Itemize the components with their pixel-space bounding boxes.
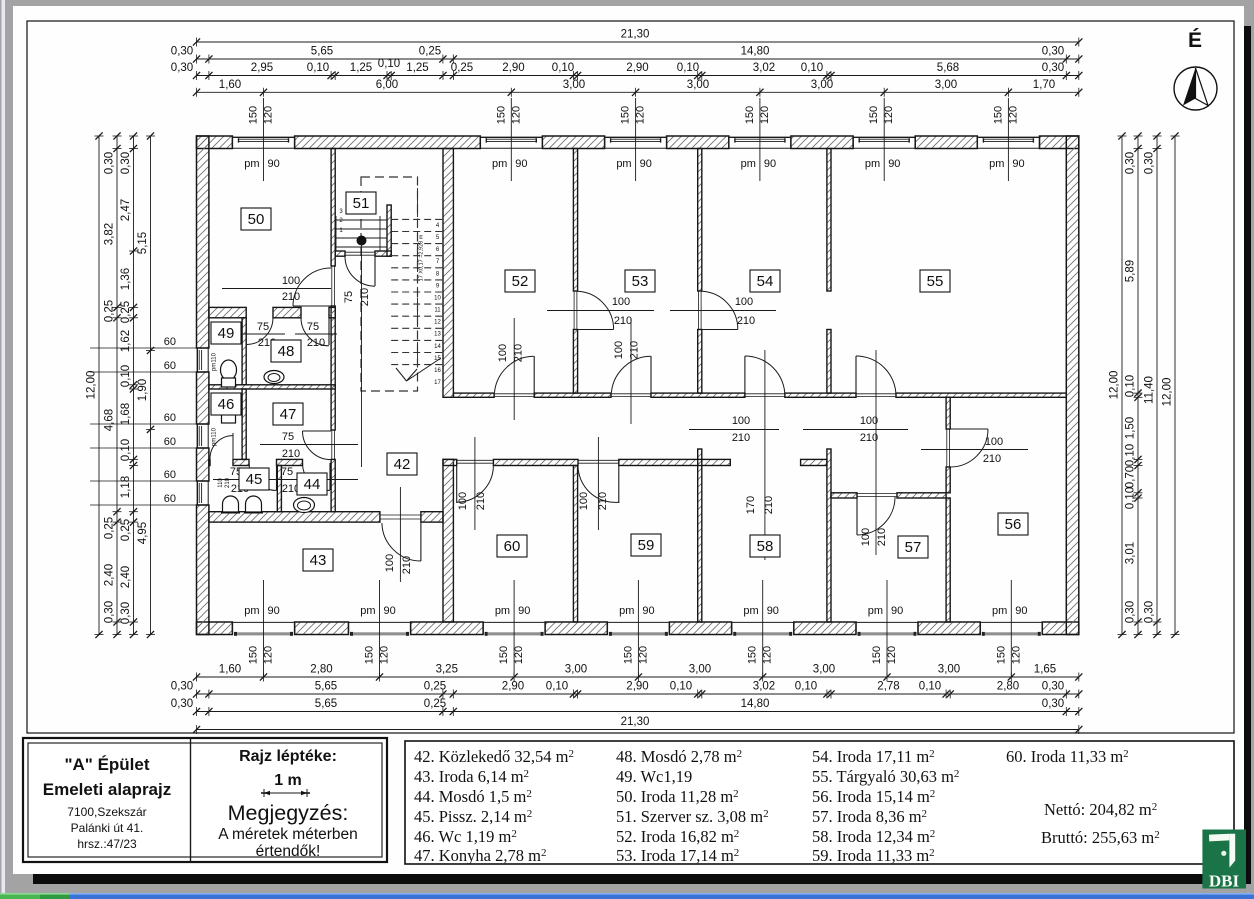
svg-text:pm: pm xyxy=(992,605,1007,617)
svg-text:100: 100 xyxy=(282,275,300,287)
svg-text:pm: pm xyxy=(989,158,1004,170)
svg-text:210: 210 xyxy=(475,492,487,510)
svg-text:48. Mosdó 2,78 m2: 48. Mosdó 2,78 m2 xyxy=(616,747,742,766)
svg-text:0,30: 0,30 xyxy=(171,681,193,693)
basin room 44 xyxy=(294,498,315,513)
svg-text:100: 100 xyxy=(735,296,753,308)
room label 44 xyxy=(297,473,327,495)
right dimension chain 11,40 xyxy=(1156,136,1158,635)
svg-text:120: 120 xyxy=(513,646,525,664)
svg-text:210: 210 xyxy=(763,496,775,514)
left dimension chain 4 xyxy=(150,136,152,635)
wall 57|56 xyxy=(946,498,950,622)
room label 51 xyxy=(346,192,376,214)
svg-text:54. Iroda 17,11 m2: 54. Iroda 17,11 m2 xyxy=(812,747,935,766)
svg-text:3,00: 3,00 xyxy=(687,79,709,91)
svg-text:47: 47 xyxy=(280,406,297,423)
svg-text:1,25: 1,25 xyxy=(350,62,372,74)
svg-text:16: 16 xyxy=(434,368,441,374)
page drop shadow right xyxy=(1244,26,1251,884)
exterior wall top xyxy=(197,136,233,149)
svg-text:90: 90 xyxy=(384,605,396,617)
svg-text:210: 210 xyxy=(737,315,755,327)
svg-text:2,78: 2,78 xyxy=(877,681,899,693)
stair flight top left xyxy=(335,219,387,221)
svg-text:pm110: pm110 xyxy=(212,352,218,371)
svg-text:14,80: 14,80 xyxy=(741,46,770,58)
svg-text:5,15: 5,15 xyxy=(137,232,149,254)
svg-text:0,30: 0,30 xyxy=(1125,601,1137,623)
svg-text:Rajz léptéke:: Rajz léptéke: xyxy=(239,748,337,765)
svg-text:0,10: 0,10 xyxy=(120,365,132,387)
top dimension row 2 xyxy=(197,58,1079,60)
svg-text:60: 60 xyxy=(164,493,176,505)
svg-text:0,10: 0,10 xyxy=(1125,487,1137,509)
svg-text:90: 90 xyxy=(268,605,280,617)
scrollbar green thumb xyxy=(0,893,70,899)
svg-text:0,10: 0,10 xyxy=(670,681,692,693)
title block outer box xyxy=(23,738,387,862)
svg-text:1,62: 1,62 xyxy=(120,330,132,352)
wc room 49 xyxy=(221,360,237,380)
svg-text:7100,Szekszár: 7100,Szekszár xyxy=(67,805,146,819)
svg-text:150: 150 xyxy=(620,106,632,124)
svg-text:75: 75 xyxy=(282,431,294,443)
svg-text:59. Iroda 11,33 m2: 59. Iroda 11,33 m2 xyxy=(812,846,935,865)
room label 43 xyxy=(303,549,333,571)
svg-text:60: 60 xyxy=(164,412,176,424)
svg-text:1,90: 1,90 xyxy=(137,379,149,401)
svg-text:0,30: 0,30 xyxy=(171,698,193,710)
svg-text:90: 90 xyxy=(268,158,280,170)
svg-text:120: 120 xyxy=(1007,106,1019,124)
door D54 upper between 53 and 54 xyxy=(697,291,699,330)
svg-text:45: 45 xyxy=(246,471,263,488)
room 57 top wall xyxy=(831,493,857,498)
svg-text:150: 150 xyxy=(868,106,880,124)
svg-text:2,80: 2,80 xyxy=(310,664,332,676)
svg-text:120: 120 xyxy=(510,106,522,124)
horizontal scrollbar xyxy=(0,893,1254,899)
windows top centre lines and pm 90 labels xyxy=(263,98,265,181)
svg-text:0,30: 0,30 xyxy=(120,602,132,624)
left dimension chain 2 xyxy=(116,136,118,635)
wall corridor|56 xyxy=(946,397,950,429)
wall 60|59 xyxy=(573,466,577,623)
svg-text:0,10: 0,10 xyxy=(552,62,574,74)
svg-text:120: 120 xyxy=(883,106,895,124)
svg-text:59: 59 xyxy=(638,537,655,554)
room label 54 xyxy=(750,270,780,292)
svg-text:17: 17 xyxy=(434,380,441,386)
svg-text:210: 210 xyxy=(225,477,231,488)
svg-text:0,10: 0,10 xyxy=(677,62,699,74)
stair newel dot xyxy=(357,236,367,246)
svg-text:Emeleti alaprajz: Emeleti alaprajz xyxy=(43,780,172,799)
compass needle xyxy=(1183,68,1196,106)
svg-text:120: 120 xyxy=(886,646,898,664)
svg-text:56. Iroda 15,14 m2: 56. Iroda 15,14 m2 xyxy=(812,787,935,806)
corridor top wall below rooms 52-55 xyxy=(453,393,494,397)
wall 52|53 xyxy=(573,149,577,292)
bottom dimension row 21,30 xyxy=(197,729,1079,731)
windows bottom centre lines and pm 90 labels xyxy=(263,580,265,677)
svg-text:1 m: 1 m xyxy=(274,772,302,789)
svg-text:0,30: 0,30 xyxy=(1042,698,1064,710)
svg-text:210: 210 xyxy=(860,432,878,444)
svg-text:210: 210 xyxy=(732,432,750,444)
corridor bottom wall xyxy=(443,459,457,465)
svg-text:100: 100 xyxy=(384,554,396,572)
door D44 room 44 xyxy=(329,463,331,490)
svg-text:51. Szerver sz. 3,08 m2: 51. Szerver sz. 3,08 m2 xyxy=(616,807,769,826)
room label 42 xyxy=(387,453,417,475)
svg-text:150: 150 xyxy=(992,106,1004,124)
svg-text:120: 120 xyxy=(759,106,771,124)
svg-text:Palánki út 41.: Palánki út 41. xyxy=(71,821,144,835)
svg-text:pm: pm xyxy=(743,605,758,617)
svg-text:75: 75 xyxy=(307,321,319,333)
svg-text:58. Iroda 12,34 m2: 58. Iroda 12,34 m2 xyxy=(812,827,935,846)
svg-text:2,47: 2,47 xyxy=(120,199,132,221)
svg-text:A méretek méterben: A méretek méterben xyxy=(218,826,358,843)
svg-text:210: 210 xyxy=(307,337,325,349)
svg-text:0,25: 0,25 xyxy=(424,681,446,693)
svg-text:60: 60 xyxy=(504,538,521,555)
svg-text:90: 90 xyxy=(891,605,903,617)
svg-text:pm: pm xyxy=(360,605,375,617)
room label 49 xyxy=(211,322,241,344)
svg-text:12,00: 12,00 xyxy=(1109,371,1121,400)
svg-text:52: 52 xyxy=(512,273,529,290)
svg-text:0,30: 0,30 xyxy=(1125,152,1137,174)
door D56 room 56 xyxy=(946,429,948,467)
svg-text:2,90: 2,90 xyxy=(502,681,524,693)
room label 45 xyxy=(239,468,269,490)
svg-text:210: 210 xyxy=(282,448,300,460)
windows left glazing and 60 dims xyxy=(196,348,198,372)
door D50 room 50 xyxy=(293,305,331,307)
svg-text:0,25: 0,25 xyxy=(451,62,473,74)
door D52 room 52 xyxy=(494,393,534,395)
svg-text:60. Iroda 11,33 m2: 60. Iroda 11,33 m2 xyxy=(1006,747,1129,766)
stair centre line xyxy=(361,241,363,468)
svg-text:0,25: 0,25 xyxy=(120,519,132,541)
svg-text:5,65: 5,65 xyxy=(315,698,337,710)
door D57 room 57 xyxy=(857,493,897,495)
door D53 upper between 52 and 53 xyxy=(573,291,575,330)
svg-text:0,10: 0,10 xyxy=(1125,375,1137,397)
top dimension row 3 xyxy=(197,75,1079,77)
svg-text:57: 57 xyxy=(905,539,922,556)
svg-text:100: 100 xyxy=(497,344,509,362)
svg-text:0,10: 0,10 xyxy=(307,62,329,74)
svg-text:0,10: 0,10 xyxy=(795,681,817,693)
svg-text:53: 53 xyxy=(632,273,649,290)
svg-text:2,40: 2,40 xyxy=(104,564,116,586)
svg-text:0,25: 0,25 xyxy=(419,46,441,58)
svg-text:90: 90 xyxy=(767,605,779,617)
svg-text:0,25: 0,25 xyxy=(104,517,116,539)
svg-text:3,00: 3,00 xyxy=(938,664,960,676)
windows bottom glazing xyxy=(232,621,294,623)
door D60 room 60 xyxy=(457,459,494,461)
svg-text:120: 120 xyxy=(637,646,649,664)
svg-text:pm: pm xyxy=(868,605,883,617)
svg-text:11: 11 xyxy=(434,308,441,314)
svg-text:60: 60 xyxy=(164,336,176,348)
svg-text:0,25: 0,25 xyxy=(104,300,116,322)
svg-text:51: 51 xyxy=(353,195,370,212)
svg-text:3,02: 3,02 xyxy=(753,62,775,74)
svg-text:É: É xyxy=(1188,29,1202,52)
svg-text:210: 210 xyxy=(282,291,300,303)
svg-text:90: 90 xyxy=(642,605,654,617)
svg-text:0,10: 0,10 xyxy=(919,681,941,693)
svg-text:45. Pissz. 2,14 m2: 45. Pissz. 2,14 m2 xyxy=(414,807,532,826)
svg-text:120: 120 xyxy=(263,646,275,664)
basin room 48 xyxy=(264,371,284,384)
svg-text:90: 90 xyxy=(640,158,652,170)
wall 59|58 xyxy=(698,449,702,622)
svg-text:100: 100 xyxy=(613,341,625,359)
svg-text:2,90: 2,90 xyxy=(502,62,524,74)
svg-text:0,10: 0,10 xyxy=(1125,444,1137,466)
svg-text:3,01: 3,01 xyxy=(1125,542,1137,564)
svg-text:21,30: 21,30 xyxy=(621,716,650,728)
left window edge strip xyxy=(2,0,6,893)
room label 60 xyxy=(497,535,527,557)
svg-text:54: 54 xyxy=(757,273,774,290)
right dimension chain 12,00 outer xyxy=(1174,136,1176,635)
svg-text:5,65: 5,65 xyxy=(311,46,333,58)
svg-text:6,00: 6,00 xyxy=(376,79,398,91)
svg-text:120: 120 xyxy=(263,106,275,124)
svg-text:210: 210 xyxy=(614,315,632,327)
svg-text:55: 55 xyxy=(927,273,944,290)
svg-text:12: 12 xyxy=(434,320,441,326)
svg-text:100: 100 xyxy=(860,528,872,546)
svg-text:0,10: 0,10 xyxy=(378,58,400,70)
svg-text:2,90: 2,90 xyxy=(626,62,648,74)
svg-text:42: 42 xyxy=(394,456,411,473)
door D48a room 48 left xyxy=(245,318,247,345)
exterior wall right xyxy=(1066,136,1079,635)
compass circle xyxy=(1174,67,1217,110)
DBI logo xyxy=(1202,830,1246,891)
svg-text:120: 120 xyxy=(635,106,647,124)
svg-text:46: 46 xyxy=(218,396,235,413)
svg-text:53. Iroda 17,14 m2: 53. Iroda 17,14 m2 xyxy=(616,846,739,865)
title block divider xyxy=(190,738,192,862)
svg-text:14: 14 xyxy=(434,344,441,350)
svg-text:150: 150 xyxy=(495,106,507,124)
door sill D50 xyxy=(331,266,333,306)
svg-text:75: 75 xyxy=(257,321,269,333)
svg-text:5,65: 5,65 xyxy=(315,681,337,693)
svg-text:0,30: 0,30 xyxy=(1144,601,1156,623)
svg-text:Megjegyzés:: Megjegyzés: xyxy=(228,801,349,825)
svg-text:58: 58 xyxy=(757,538,774,555)
bottom dimension row walls xyxy=(197,693,1079,695)
wall stair|room52 xyxy=(443,149,453,398)
svg-text:44. Mosdó 1,5 m2: 44. Mosdó 1,5 m2 xyxy=(414,787,532,806)
svg-text:3,00: 3,00 xyxy=(689,664,711,676)
svg-text:120: 120 xyxy=(1010,646,1022,664)
wall room50 right / stair hall west xyxy=(331,149,335,267)
svg-text:értendők!: értendők! xyxy=(256,843,321,860)
svg-text:90: 90 xyxy=(1012,158,1024,170)
top dimension row 21,30 xyxy=(197,41,1079,43)
door D54 lower room 54 xyxy=(745,393,785,395)
svg-text:3,00: 3,00 xyxy=(935,79,957,91)
svg-text:pm: pm xyxy=(492,158,507,170)
svg-text:60: 60 xyxy=(164,469,176,481)
svg-text:55. Tárgyaló 30,63 m2: 55. Tárgyaló 30,63 m2 xyxy=(812,767,959,786)
room label 50 xyxy=(241,208,271,230)
urinals room 45 xyxy=(223,496,239,512)
svg-text:2,95: 2,95 xyxy=(251,62,273,74)
svg-text:14,80: 14,80 xyxy=(741,698,770,710)
wall room50 bottom xyxy=(209,307,246,317)
svg-text:1,70: 1,70 xyxy=(1033,79,1055,91)
door D46 room 46 xyxy=(232,433,234,459)
svg-text:90: 90 xyxy=(518,605,530,617)
svg-text:150: 150 xyxy=(995,646,1007,664)
svg-text:0,30: 0,30 xyxy=(171,62,193,74)
room label 58 xyxy=(750,535,780,557)
room label 53 xyxy=(625,270,655,292)
svg-text:49: 49 xyxy=(218,325,235,342)
svg-text:2,80: 2,80 xyxy=(997,681,1019,693)
svg-text:150: 150 xyxy=(744,106,756,124)
svg-text:0,25: 0,25 xyxy=(424,698,446,710)
svg-text:pm: pm xyxy=(865,158,880,170)
svg-text:0,70: 0,70 xyxy=(1125,466,1137,488)
svg-text:hrsz.:47/23: hrsz.:47/23 xyxy=(77,837,137,851)
svg-text:210: 210 xyxy=(983,453,1001,465)
svg-text:pm: pm xyxy=(741,158,756,170)
svg-text:120: 120 xyxy=(379,646,391,664)
svg-text:75: 75 xyxy=(343,291,355,303)
svg-text:pm: pm xyxy=(244,158,259,170)
exterior wall left xyxy=(197,136,209,348)
wall 54|55 xyxy=(827,149,831,292)
svg-text:pm: pm xyxy=(619,605,634,617)
svg-text:0,30: 0,30 xyxy=(120,152,132,174)
svg-text:50. Iroda 11,28 m2: 50. Iroda 11,28 m2 xyxy=(616,787,739,806)
right dimension chain 2 xyxy=(1137,136,1139,635)
svg-text:0,25: 0,25 xyxy=(120,301,132,323)
svg-text:2,90: 2,90 xyxy=(626,681,648,693)
svg-text:Bruttó: 255,63 m2: Bruttó: 255,63 m2 xyxy=(1041,828,1160,847)
wall server room 51 south xyxy=(335,251,345,256)
svg-text:42. Közlekedő 32,54 m2: 42. Közlekedő 32,54 m2 xyxy=(414,747,574,766)
svg-text:3,00: 3,00 xyxy=(565,664,587,676)
svg-text:13: 13 xyxy=(434,332,441,338)
svg-text:"A" Épület: "A" Épület xyxy=(64,755,149,774)
svg-text:pm: pm xyxy=(495,605,510,617)
svg-text:100: 100 xyxy=(985,436,1003,448)
svg-text:56: 56 xyxy=(1005,516,1022,533)
svg-text:0,10: 0,10 xyxy=(801,62,823,74)
svg-text:60: 60 xyxy=(164,360,176,372)
svg-text:0,30: 0,30 xyxy=(1144,152,1156,174)
svg-text:100: 100 xyxy=(612,296,630,308)
svg-text:3,00: 3,00 xyxy=(811,79,833,91)
svg-text:0,30: 0,30 xyxy=(171,46,193,58)
svg-text:1,60: 1,60 xyxy=(219,664,241,676)
svg-text:12,00: 12,00 xyxy=(1162,378,1174,407)
svg-text:100: 100 xyxy=(457,492,469,510)
room label 56 xyxy=(998,513,1028,535)
door D45 room 45 xyxy=(276,463,278,490)
svg-text:12,00: 12,00 xyxy=(86,371,98,400)
svg-text:52. Iroda 16,82 m2: 52. Iroda 16,82 m2 xyxy=(616,827,739,846)
svg-text:210: 210 xyxy=(359,288,371,306)
svg-text:210: 210 xyxy=(629,341,641,359)
svg-text:pm110: pm110 xyxy=(212,427,218,446)
svg-text:pm: pm xyxy=(616,158,631,170)
svg-text:110: 110 xyxy=(218,478,224,488)
legend box xyxy=(405,741,1234,864)
door D48b room 48 right xyxy=(328,318,330,345)
svg-text:0,30: 0,30 xyxy=(104,601,116,623)
page drop shadow bottom xyxy=(33,874,1251,884)
svg-text:3,00: 3,00 xyxy=(813,664,835,676)
room label 57 xyxy=(898,536,928,558)
stair dashed steps xyxy=(391,218,443,220)
stair 51 dashed outline xyxy=(361,177,418,391)
svg-text:1,50: 1,50 xyxy=(1125,417,1137,439)
room label 55 xyxy=(920,270,950,292)
svg-text:44: 44 xyxy=(304,476,321,493)
svg-text:0,10: 0,10 xyxy=(546,681,568,693)
room label 46 xyxy=(211,393,241,415)
svg-text:1,18: 1,18 xyxy=(120,476,132,498)
wall 53|54 xyxy=(698,149,702,292)
wall above room 43 xyxy=(209,512,380,522)
svg-text:170: 170 xyxy=(745,496,757,514)
svg-text:3,25: 3,25 xyxy=(436,664,458,676)
svg-text:10: 10 xyxy=(434,296,441,302)
door D59 room 59 xyxy=(578,459,619,461)
svg-text:210: 210 xyxy=(876,528,888,546)
svg-text:100: 100 xyxy=(732,415,750,427)
door D43 room 43 xyxy=(380,514,421,516)
svg-text:1,60: 1,60 xyxy=(219,79,241,91)
left dimension chain 3 xyxy=(133,136,135,635)
room label 48 xyxy=(271,340,301,362)
wall 43|60 xyxy=(443,459,453,622)
bottom dimension row 3 xyxy=(197,711,1079,713)
svg-text:100: 100 xyxy=(860,415,878,427)
svg-text:17 X0,17 =2,928 m: 17 X0,17 =2,928 m xyxy=(419,234,425,281)
exterior wall bottom xyxy=(197,622,233,635)
svg-text:210: 210 xyxy=(401,556,413,574)
svg-text:50: 50 xyxy=(248,211,265,228)
svg-text:0,30: 0,30 xyxy=(1042,46,1064,58)
svg-text:100: 100 xyxy=(578,492,590,510)
wall 58|57 xyxy=(827,449,831,622)
svg-text:pm: pm xyxy=(244,605,259,617)
windows top glazing xyxy=(232,136,294,138)
svg-text:47. Konyha 2,78 m2: 47. Konyha 2,78 m2 xyxy=(414,846,546,865)
wall below rooms 49/48 xyxy=(209,385,335,389)
svg-text:0,30: 0,30 xyxy=(1042,681,1064,693)
room label 47 xyxy=(273,403,303,425)
scale bar xyxy=(264,792,307,794)
